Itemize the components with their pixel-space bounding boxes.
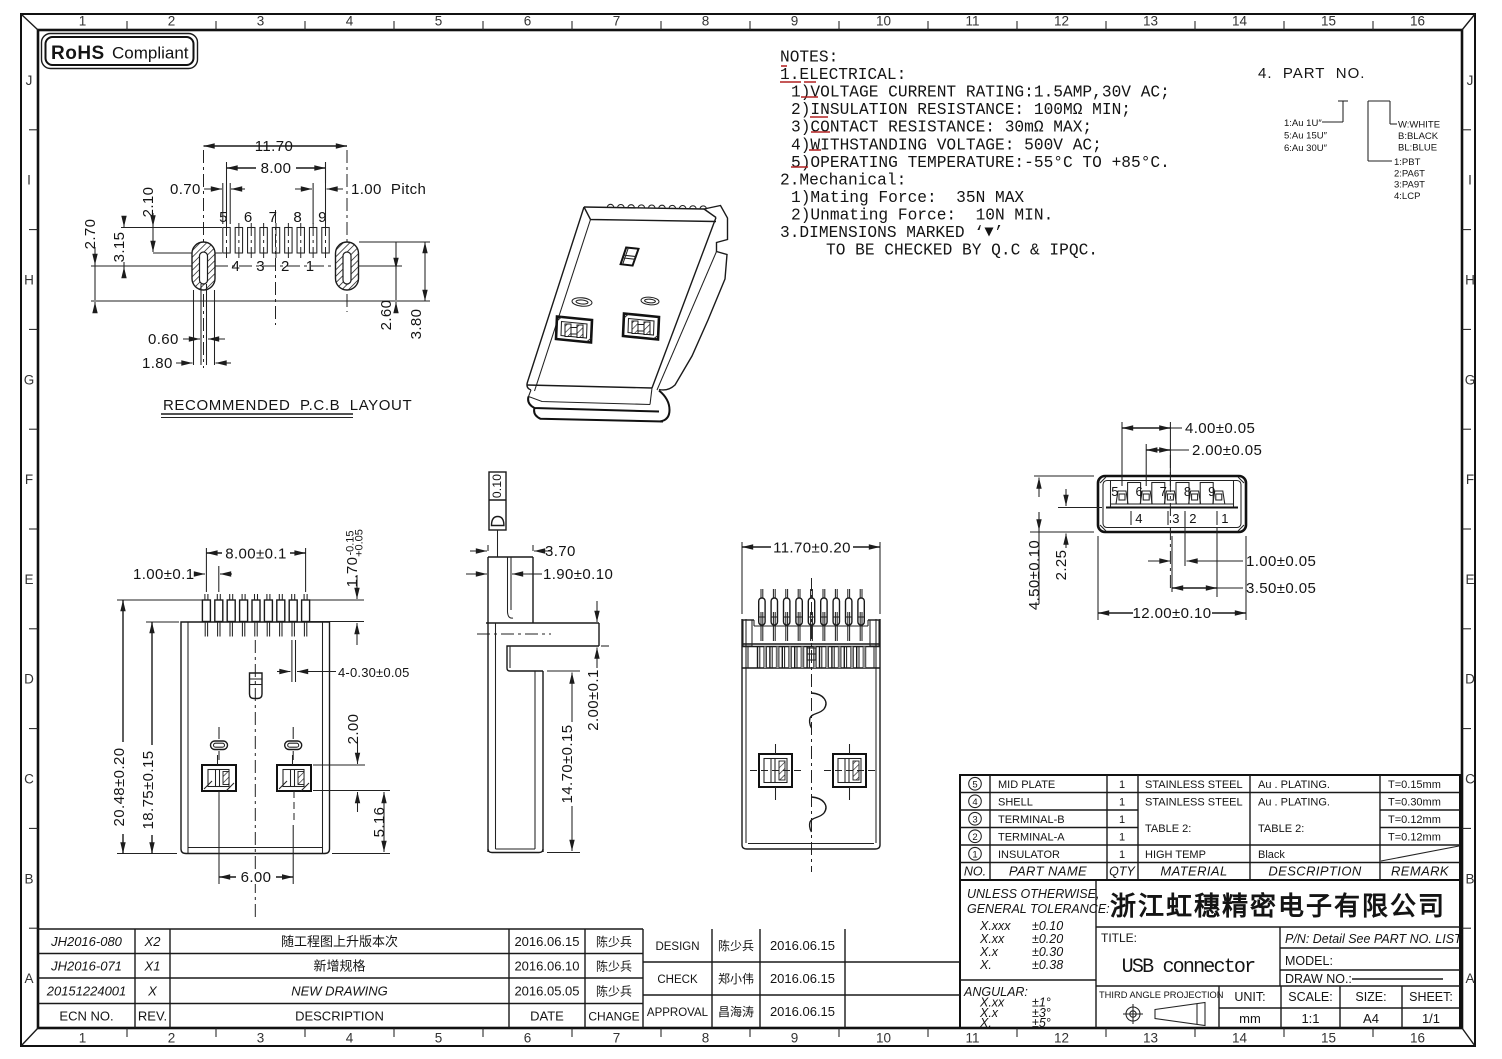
svg-text:W:WHITE: W:WHITE (1398, 120, 1440, 131)
svg-text:3.50±0.05: 3.50±0.05 (1246, 580, 1316, 597)
svg-text:DESCRIPTION: DESCRIPTION (1268, 864, 1361, 879)
svg-text:TERMINAL-A: TERMINAL-A (998, 831, 1065, 843)
svg-text:1: 1 (972, 849, 977, 860)
svg-text:G: G (1465, 372, 1476, 387)
svg-text:1.70: 1.70 (344, 557, 361, 588)
svg-text:1.90±0.10: 1.90±0.10 (543, 566, 613, 583)
svg-text:7: 7 (1160, 484, 1167, 499)
svg-text:THIRD ANGLE PROJECTION: THIRD ANGLE PROJECTION (1099, 990, 1224, 1000)
svg-text:陈少兵: 陈少兵 (596, 934, 632, 949)
svg-text:8: 8 (702, 14, 710, 29)
svg-text:8.00±0.1: 8.00±0.1 (225, 546, 286, 563)
dimension 1.00 Pitch (295, 162, 426, 224)
svg-text:B:BLACK: B:BLACK (1398, 131, 1439, 142)
svg-text:A4: A4 (1363, 1011, 1379, 1026)
svg-text:10: 10 (876, 14, 891, 29)
svg-text:1.00±0.1: 1.00±0.1 (133, 566, 194, 583)
dimension 2.60 (378, 242, 396, 330)
svg-text:18.75±0.15: 18.75±0.15 (140, 751, 157, 830)
notes text block (780, 49, 1170, 260)
signature table (643, 929, 960, 1028)
svg-text:X2: X2 (144, 934, 162, 949)
svg-text:1: 1 (306, 258, 315, 275)
tolerance notes (963, 887, 1110, 1030)
svg-text:2016.06.10: 2016.06.10 (514, 958, 579, 973)
dimension 20.48±0.20 (111, 600, 202, 854)
svg-text:I: I (27, 173, 31, 188)
svg-text:T=0.30mm: T=0.30mm (1388, 796, 1441, 808)
RoHS Compliant stamp (42, 34, 198, 69)
dimension 1.00±0.05 (1148, 513, 1316, 592)
svg-text:X.xx: X.xx (979, 932, 1005, 946)
svg-text:15: 15 (1321, 1031, 1336, 1046)
view: front view with pins (181, 622, 330, 920)
svg-text:2.00±0.1: 2.00±0.1 (585, 669, 602, 730)
dimension 5.16 (332, 792, 390, 854)
svg-text:12: 12 (1054, 14, 1069, 29)
svg-text:3.DIMENSIONS MARKED ‘ ’: 3.DIMENSIONS MARKED ‘ ’ (780, 224, 1003, 242)
svg-text:4: 4 (346, 1031, 354, 1046)
svg-text:RECOMMENDED P.C.B LAYOUT: RECOMMENDED P.C.B LAYOUT (163, 397, 412, 414)
part number code tree (1284, 101, 1440, 202)
svg-text:3.70: 3.70 (545, 543, 576, 560)
svg-text:12.00±0.10: 12.00±0.10 (1133, 605, 1212, 622)
dimension 2.00±0.1 (side) (585, 601, 609, 731)
svg-text:F: F (1466, 472, 1474, 487)
dimension 3.80 (408, 242, 425, 339)
svg-text:UNLESS OTHERWISE,: UNLESS OTHERWISE, (967, 887, 1099, 901)
svg-text:8.00: 8.00 (261, 160, 292, 177)
svg-text:6: 6 (244, 209, 253, 226)
dimension 2.70 (82, 219, 99, 312)
rear view center cut line (810, 578, 826, 872)
svg-text:5: 5 (972, 779, 977, 790)
svg-text:±0.38: ±0.38 (1032, 958, 1063, 972)
svg-text:TERMINAL-B: TERMINAL-B (998, 814, 1065, 826)
svg-text:5: 5 (435, 1031, 443, 1046)
svg-text:STAINLESS STEEL: STAINLESS STEEL (1145, 779, 1243, 791)
svg-text:SCALE:: SCALE: (1288, 990, 1332, 1004)
svg-text:REV.: REV. (138, 1008, 167, 1023)
svg-text:5.16: 5.16 (371, 807, 388, 838)
svg-text:G: G (24, 372, 35, 387)
svg-text:mm: mm (1239, 1011, 1261, 1026)
svg-text:F: F (25, 472, 33, 487)
svg-text:2: 2 (1189, 511, 1196, 526)
svg-text:8: 8 (1184, 484, 1191, 499)
svg-text:H: H (1465, 273, 1475, 288)
svg-text:MODEL:: MODEL: (1285, 954, 1333, 968)
dimension 11.70 (204, 138, 348, 155)
svg-text:3: 3 (1172, 511, 1179, 526)
dimension 2.10 (140, 187, 157, 252)
svg-text:SHEET:: SHEET: (1409, 990, 1453, 1004)
svg-text:X.: X. (979, 1016, 992, 1030)
svg-text:1/1: 1/1 (1422, 1011, 1440, 1026)
svg-text:2.70: 2.70 (82, 219, 99, 250)
svg-text:NEW DRAWING: NEW DRAWING (291, 983, 388, 998)
dimension 11.70±0.20 (rear) (742, 539, 880, 614)
svg-text:15: 15 (1321, 14, 1336, 29)
dimension 1.70 +0.05 -0.15 (310, 529, 366, 645)
svg-text:2.25: 2.25 (1053, 550, 1070, 581)
svg-text:JH2016-071: JH2016-071 (50, 958, 122, 973)
svg-text:16: 16 (1410, 1031, 1425, 1046)
svg-text:陈少兵: 陈少兵 (596, 958, 632, 973)
svg-text:1: 1 (1119, 779, 1125, 791)
svg-text:DESIGN: DESIGN (655, 941, 699, 953)
svg-text:STAINLESS STEEL: STAINLESS STEEL (1145, 796, 1243, 808)
dimension 1.80 (142, 355, 231, 372)
svg-text:X.: X. (979, 958, 992, 972)
svg-text:T=0.12mm: T=0.12mm (1388, 814, 1441, 826)
front view relief ovals (211, 727, 302, 760)
dimension 4.50±0.10 (1026, 476, 1094, 610)
svg-text:DESCRIPTION: DESCRIPTION (295, 1008, 384, 1023)
svg-text:1.00 Pitch: 1.00 Pitch (351, 181, 426, 198)
svg-text:4.50±0.10: 4.50±0.10 (1026, 540, 1043, 610)
svg-text:1: 1 (1221, 511, 1228, 526)
P/N, MODEL, DRAW NO (1285, 932, 1463, 986)
svg-text:6.00: 6.00 (241, 869, 272, 886)
svg-text:X.x: X.x (979, 945, 999, 959)
svg-text:±0.20: ±0.20 (1032, 932, 1063, 946)
svg-text:2: 2 (281, 258, 290, 275)
svg-text:D: D (1465, 672, 1475, 687)
svg-text:6: 6 (524, 14, 532, 29)
svg-text:9: 9 (791, 1031, 799, 1046)
svg-text:随工程图上升版本次: 随工程图上升版本次 (281, 934, 398, 949)
svg-text:陈少兵: 陈少兵 (596, 983, 632, 998)
dimension 3.50±0.05 (1172, 528, 1316, 597)
svg-text:A: A (24, 971, 33, 986)
svg-text:1: 1 (1119, 796, 1125, 808)
svg-text:MID PLATE: MID PLATE (998, 779, 1055, 791)
svg-text:NOTES:: NOTES: (780, 49, 838, 67)
svg-text:E: E (1465, 572, 1474, 587)
view: recommended PCB layout (91, 150, 430, 368)
svg-text:1.80: 1.80 (142, 355, 173, 372)
svg-text:5: 5 (435, 14, 443, 29)
svg-text:RoHS: RoHS (51, 43, 105, 64)
svg-text:1: 1 (1119, 814, 1125, 826)
svg-text:±5°: ±5° (1032, 1016, 1051, 1030)
dimension 0.70 (170, 181, 245, 224)
dimension 4.00±0.05 (1122, 420, 1255, 486)
svg-text:14: 14 (1232, 1031, 1248, 1046)
svg-text:5: 5 (1111, 484, 1118, 499)
svg-text:7: 7 (269, 209, 278, 226)
mating face contacts and slots (1111, 481, 1234, 526)
svg-text:20.48±0.20: 20.48±0.20 (111, 748, 128, 827)
svg-text:4:LCP: 4:LCP (1394, 191, 1420, 202)
svg-text:0.60: 0.60 (148, 331, 179, 348)
svg-text:0.10: 0.10 (490, 474, 504, 498)
svg-text:4: 4 (972, 797, 977, 808)
PCB oval mounting holes (192, 242, 359, 365)
svg-text:2016.06.15: 2016.06.15 (770, 1004, 835, 1019)
third angle projection cell (1099, 990, 1224, 1026)
svg-text:3.80: 3.80 (408, 309, 425, 340)
rear view stripe band (748, 647, 874, 669)
svg-text:4: 4 (346, 14, 354, 29)
unit scale size sheet (1234, 990, 1453, 1026)
view: isometric projection of USB connector (527, 204, 728, 421)
dimension 2.25 (1053, 489, 1102, 580)
title: USB connector (1101, 931, 1255, 979)
svg-text:3.15: 3.15 (111, 232, 128, 263)
svg-text:HIGH TEMP: HIGH TEMP (1145, 849, 1206, 861)
svg-text:NO.: NO. (964, 865, 986, 879)
svg-text:1: 1 (79, 14, 87, 29)
svg-text:郑小伟: 郑小伟 (718, 971, 754, 986)
svg-text:4: 4 (232, 258, 241, 275)
svg-text:SHELL: SHELL (998, 796, 1033, 808)
svg-text:9: 9 (1208, 484, 1215, 499)
dimension 12.00±0.10 (1098, 536, 1246, 622)
svg-text:1)VOLTAGE CURRENT RATING:1.5AM: 1)VOLTAGE CURRENT RATING:1.5AMP,30V AC; (791, 84, 1170, 102)
svg-text:QTY: QTY (1109, 865, 1136, 879)
svg-text:1: 1 (79, 1031, 87, 1046)
dimension 6.00 (219, 795, 293, 886)
svg-text:2.10: 2.10 (140, 187, 157, 218)
svg-text:3: 3 (256, 258, 265, 275)
svg-text:TO BE CHECKED BY Q.C & IPQC.: TO BE CHECKED BY Q.C & IPQC. (826, 242, 1098, 260)
svg-text:5)OPERATING TEMPERATURE:-55°C: 5)OPERATING TEMPERATURE:-55°C TO +85°C. (791, 154, 1170, 172)
company name (1110, 891, 1446, 921)
svg-text:REMARK: REMARK (1391, 864, 1450, 879)
svg-text:TITLE:: TITLE: (1101, 931, 1137, 945)
svg-text:PART NAME: PART NAME (1009, 864, 1087, 879)
svg-text:2.00: 2.00 (345, 714, 362, 745)
svg-text:MATERIAL: MATERIAL (1160, 864, 1227, 879)
svg-text:昌海涛: 昌海涛 (718, 1004, 754, 1019)
svg-text:14: 14 (1232, 14, 1248, 29)
svg-text:APPROVAL: APPROVAL (647, 1007, 709, 1019)
svg-text:1:1: 1:1 (1301, 1011, 1319, 1026)
svg-text:2: 2 (972, 832, 977, 843)
svg-text:JH2016-080: JH2016-080 (50, 934, 123, 949)
svg-text:4. PART NO.: 4. PART NO. (1258, 65, 1365, 82)
dimension 8.00±0.1 (206, 545, 305, 592)
svg-text:CHECK: CHECK (657, 974, 698, 986)
svg-text:2016.06.15: 2016.06.15 (770, 971, 835, 986)
svg-text:±0.10: ±0.10 (1032, 919, 1063, 933)
front view center latch detail (250, 673, 263, 699)
svg-text:1)Mating Force: 35N MAX: 1)Mating Force: 35N MAX (791, 189, 1024, 207)
svg-text:14.70±0.15: 14.70±0.15 (559, 725, 576, 804)
svg-text:2:PA6T: 2:PA6T (1394, 168, 1425, 179)
view: side profile (477, 472, 599, 853)
dimension 3.15 (111, 216, 128, 276)
svg-text:J: J (1467, 73, 1474, 88)
svg-text:CHANGE: CHANGE (588, 1009, 639, 1023)
svg-text:A: A (1465, 971, 1474, 986)
svg-text:11.70: 11.70 (255, 138, 293, 155)
svg-text:13: 13 (1143, 1031, 1158, 1046)
svg-text:2016.06.15: 2016.06.15 (770, 938, 835, 953)
svg-text:H: H (24, 273, 34, 288)
svg-text:11: 11 (965, 1031, 979, 1046)
svg-text:5:Au 15U″: 5:Au 15U″ (1284, 131, 1328, 142)
svg-text:2: 2 (168, 1031, 176, 1046)
svg-text:Black: Black (1258, 849, 1285, 861)
svg-text:12: 12 (1054, 1031, 1069, 1046)
svg-text:B: B (24, 871, 33, 886)
dimension 2.00±0.05 (1146, 442, 1262, 486)
revision table (38, 929, 643, 1028)
parts list table (960, 775, 1460, 880)
svg-text:UNIT:: UNIT: (1234, 990, 1265, 1004)
svg-text:4: 4 (1135, 511, 1142, 526)
part number heading (1258, 65, 1365, 82)
parts table content (964, 777, 1459, 878)
dimension 2.00 (front) (313, 714, 390, 812)
svg-text:3: 3 (257, 1031, 265, 1046)
svg-text:SIZE:: SIZE: (1355, 990, 1386, 1004)
svg-text:3:PA9T: 3:PA9T (1394, 180, 1425, 191)
front view pins (202, 594, 309, 637)
dimension 3.70 (470, 543, 576, 560)
svg-text:4-0.30±0.05: 4-0.30±0.05 (338, 665, 410, 680)
svg-text:E: E (24, 572, 33, 587)
svg-text:8: 8 (293, 209, 302, 226)
dimension 1.00±0.1 (133, 566, 232, 592)
red check marks on notes (780, 66, 830, 167)
svg-text:6:Au 30U″: 6:Au 30U″ (1284, 143, 1328, 154)
svg-text:2.Mechanical:: 2.Mechanical: (780, 171, 906, 189)
svg-text:TABLE 2:: TABLE 2: (1145, 823, 1191, 835)
svg-text:2016.05.05: 2016.05.05 (514, 983, 579, 998)
svg-text:TABLE 2:: TABLE 2: (1258, 823, 1304, 835)
view: mating face (1098, 476, 1246, 532)
svg-text:10: 10 (876, 1031, 891, 1046)
svg-text:DATE: DATE (530, 1008, 564, 1023)
svg-text:11.70±0.20: 11.70±0.20 (773, 540, 851, 557)
svg-text:2.00±0.05: 2.00±0.05 (1192, 442, 1262, 459)
svg-text:X.xxx: X.xxx (979, 919, 1011, 933)
svg-text:1:Au 1U″: 1:Au 1U″ (1284, 118, 1322, 129)
svg-text:DRAW NO.:: DRAW NO.: (1285, 972, 1352, 986)
svg-text:4)WITHSTANDING VOLTAGE: 500V A: 4)WITHSTANDING VOLTAGE: 500V AC; (791, 136, 1102, 154)
title block grid (960, 880, 1460, 1028)
svg-text:BL:BLUE: BL:BLUE (1398, 143, 1437, 154)
svg-text:X: X (147, 983, 158, 998)
svg-text:浙江虹穗精密电子有限公司: 浙江虹穗精密电子有限公司 (1110, 891, 1446, 921)
svg-text:X1: X1 (144, 958, 161, 973)
svg-text:±0.30: ±0.30 (1032, 945, 1063, 959)
svg-text:16: 16 (1410, 14, 1425, 29)
svg-text:USB connector: USB connector (1122, 956, 1255, 979)
view: rear view (742, 619, 880, 849)
svg-text:2.60: 2.60 (378, 300, 395, 331)
svg-text:8: 8 (702, 1031, 710, 1046)
svg-text:7: 7 (613, 14, 621, 29)
svg-text:1.00±0.05: 1.00±0.05 (1246, 553, 1316, 570)
svg-text:Au . PLATING.: Au . PLATING. (1258, 796, 1330, 808)
svg-text:13: 13 (1143, 14, 1158, 29)
dimension 14.70±0.15 (547, 671, 580, 853)
svg-text:+0.05: +0.05 (354, 529, 366, 557)
svg-text:T=0.15mm: T=0.15mm (1388, 779, 1441, 791)
svg-text:2016.06.15: 2016.06.15 (514, 934, 579, 949)
svg-text:Compliant: Compliant (112, 44, 189, 63)
svg-text:11: 11 (965, 14, 979, 29)
svg-text:D: D (24, 672, 34, 687)
svg-text:INSULATOR: INSULATOR (998, 849, 1060, 861)
svg-text:9: 9 (791, 14, 799, 29)
svg-text:7: 7 (613, 1031, 621, 1046)
svg-text:B: B (1465, 871, 1474, 886)
dimension 18.75±0.15 (140, 622, 179, 854)
PCB pads 1-9 (219, 209, 329, 275)
svg-text:C: C (24, 772, 34, 787)
svg-text:2)INSULATION RESISTANCE: 100MΩ: 2)INSULATION RESISTANCE: 100MΩ MIN; (791, 101, 1131, 119)
svg-text:6: 6 (524, 1031, 532, 1046)
svg-text:2)Unmating Force: 10N MIN.: 2)Unmating Force: 10N MIN. (791, 206, 1053, 224)
rear view contact windows (750, 744, 875, 800)
svg-text:Au . PLATING.: Au . PLATING. (1258, 779, 1330, 791)
svg-text:ECN NO.: ECN NO. (59, 1008, 113, 1023)
dimension 4-0.30±0.05 (277, 640, 410, 682)
svg-text:J: J (26, 73, 33, 88)
svg-text:3: 3 (257, 14, 265, 29)
svg-text:1: 1 (1119, 849, 1125, 861)
mating face centerline (1169, 455, 1171, 592)
front view contact windows (202, 755, 311, 820)
svg-text:I: I (1468, 173, 1472, 188)
rear view pins (759, 589, 865, 641)
svg-text:T=0.12mm: T=0.12mm (1388, 831, 1441, 843)
dimension 8.00 (227, 160, 326, 224)
svg-text:新增规格: 新增规格 (313, 958, 365, 973)
svg-text:GENERAL TOLERANCE:: GENERAL TOLERANCE: (967, 902, 1110, 916)
svg-text:6: 6 (1135, 484, 1142, 499)
svg-text:陈少兵: 陈少兵 (718, 938, 754, 953)
svg-text:2: 2 (168, 14, 176, 29)
svg-text:3)CONTACT RESISTANCE: 30mΩ MAX: 3)CONTACT RESISTANCE: 30mΩ MAX; (791, 119, 1092, 137)
svg-text:3: 3 (972, 814, 977, 825)
svg-text:C: C (1465, 772, 1475, 787)
svg-text:20151224001: 20151224001 (46, 983, 127, 998)
view title: recommended pcb layout (161, 397, 412, 418)
svg-text:1:PBT: 1:PBT (1394, 157, 1421, 168)
svg-text:4.00±0.05: 4.00±0.05 (1185, 420, 1255, 437)
dimension 1.90±0.10 (466, 566, 613, 583)
dimension 0.60 (148, 331, 225, 348)
svg-text:P/N: Detail See PART NO. LIST: P/N: Detail See PART NO. LIST (1285, 932, 1463, 946)
svg-text:0.70: 0.70 (170, 181, 201, 198)
svg-text:1: 1 (1119, 831, 1125, 843)
